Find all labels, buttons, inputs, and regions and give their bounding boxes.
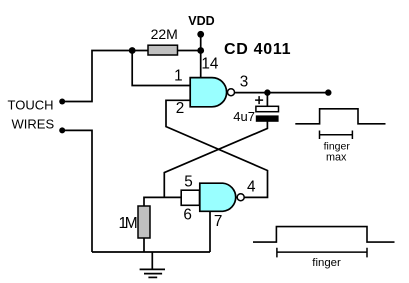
waveform finger max bracket (320, 131, 353, 140)
wire 1M resistor bottom stub (143, 238, 145, 252)
wire pin 2 cross-coupling to pin 4 output loop (166, 100, 268, 197)
wire VDD stub (200, 34, 202, 50)
svg-text:max: max (326, 151, 347, 163)
svg-text:14: 14 (201, 55, 219, 72)
wire pin 1 from left junction down to gate U1a input (132, 51, 190, 86)
op-amp U1b NAND gate (200, 183, 244, 211)
resistor R2 1M (138, 206, 150, 238)
svg-text:CD 4011: CD 4011 (224, 41, 291, 58)
waveform finger max pulse (295, 109, 385, 124)
terminal TOUCH dot (59, 99, 65, 105)
svg-text:6: 6 (183, 207, 192, 224)
wire node pins 5-6 horizontal with 1M resistor top stub (144, 197, 181, 206)
wire pin 3 output to right terminal (235, 92, 328, 94)
wire capacitor top stub (266, 93, 268, 107)
terminal output dot (325, 89, 331, 95)
wire WIRES lead down to ground rail (62, 130, 92, 252)
node pins 5-6 input junction box (181, 190, 199, 205)
wire pin 14 from VDD junction to gate U1a top (200, 51, 202, 79)
svg-text:1: 1 (174, 68, 183, 85)
svg-text:TOUCH: TOUCH (8, 97, 54, 112)
node pin 3 capacitor junction (264, 89, 270, 95)
ground (140, 252, 165, 277)
svg-text:4u7: 4u7 (233, 109, 255, 124)
wire ground rail (92, 251, 210, 253)
svg-text:5: 5 (184, 174, 193, 191)
wire resistor right to VDD junction (178, 50, 201, 52)
capacitor C1 4u7 (233, 96, 278, 124)
svg-text:2: 2 (176, 100, 185, 117)
terminal VDD dot (197, 31, 204, 38)
svg-text:22M: 22M (151, 26, 178, 42)
svg-text:1M: 1M (119, 215, 137, 232)
svg-text:3: 3 (240, 73, 249, 90)
wire capacitor bottom cross-coupling to gate U1b inputs (164, 121, 267, 197)
svg-text:WIRES: WIRES (12, 116, 55, 131)
wire TOUCH lead to top rail and resistor left (62, 51, 148, 102)
node junction left of resistor (129, 47, 136, 54)
node junction right of resistor under VDD (197, 47, 204, 54)
waveform finger pulse (253, 227, 395, 243)
svg-text:7: 7 (214, 213, 223, 230)
svg-text:VDD: VDD (188, 14, 214, 28)
svg-text:finger: finger (312, 257, 341, 269)
op-amp U1a NAND gate (190, 78, 234, 107)
waveform finger bracket (277, 248, 367, 258)
terminal WIRES dot (59, 127, 65, 133)
resistor R1 22M (148, 45, 178, 55)
wire pin 7 from gate U1b bottom to ground rail (209, 211, 211, 252)
svg-text:4: 4 (247, 179, 256, 196)
